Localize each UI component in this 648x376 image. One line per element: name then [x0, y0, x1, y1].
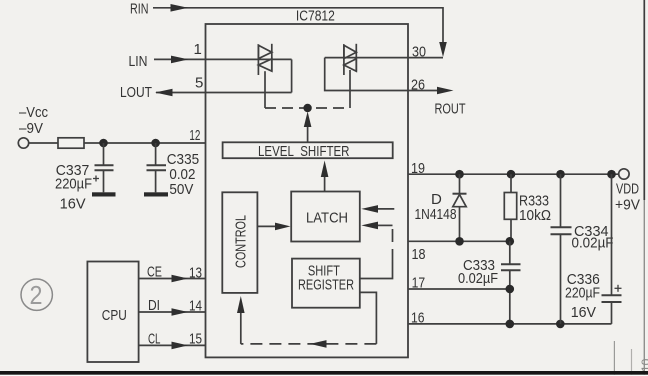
- pin 14 label: [189, 298, 202, 315]
- arrowhead into latch right 2: [361, 222, 378, 230]
- pin 30 label: [412, 44, 426, 61]
- svg-text:26: 26: [411, 77, 425, 94]
- junction pin17 C333: [506, 285, 515, 294]
- wire shift register to latch (dashed riser): [360, 262, 393, 279]
- svg-text:16V: 16V: [60, 196, 86, 213]
- analog switch S2 (right): [344, 44, 356, 75]
- ground C337: [92, 192, 116, 196]
- svg-text:15: 15: [189, 331, 202, 348]
- wire level shifter to control bus: [307, 126, 309, 142]
- analog switch S1 (left): [258, 44, 271, 75]
- pin 16 label: [411, 310, 425, 327]
- svg-text:DI: DI: [148, 297, 160, 314]
- block LATCH: [291, 192, 360, 242]
- svg-text:1: 1: [194, 41, 202, 58]
- arrowhead down into pin 30: [439, 42, 447, 57]
- svg-text:50V: 50V: [169, 181, 193, 198]
- junction rail R333: [507, 170, 516, 179]
- junction control bus: [303, 104, 311, 112]
- wire LOUT pin 5: [156, 92, 292, 94]
- resistor R333: [504, 174, 516, 241]
- svg-text:ROUT: ROUT: [435, 101, 466, 118]
- svg-text:16V: 16V: [571, 304, 596, 321]
- svg-text:220µF: 220µF: [55, 176, 92, 193]
- svg-text:12: 12: [189, 127, 200, 144]
- svg-text:–9V: –9V: [19, 120, 43, 137]
- arrowhead feedback left: [310, 340, 327, 348]
- svg-text:17: 17: [412, 275, 426, 292]
- wire dashed feedback to control: [241, 343, 377, 345]
- pin 26 label: [411, 77, 425, 94]
- svg-text:LATCH: LATCH: [306, 210, 348, 227]
- block SHIFT REGISTER: [292, 259, 360, 308]
- ground C335: [144, 192, 168, 196]
- wire pin 12 rail: [84, 142, 206, 144]
- wire input arrow 1 into latch right: [377, 208, 394, 210]
- capacitor C335: [147, 143, 167, 192]
- svg-text:VDD: VDD: [616, 181, 639, 198]
- scan artifact vertical lines bottom right: [613, 341, 615, 376]
- wire switch1 wrap: [291, 59, 293, 92]
- svg-text:19: 19: [411, 160, 425, 177]
- label C336 220uF 16V: [565, 271, 600, 321]
- label LATCH: [306, 210, 348, 227]
- junction rail D: [455, 170, 464, 179]
- svg-text:14: 14: [189, 298, 202, 315]
- svg-text:+9V: +9V: [615, 197, 640, 214]
- junction pin18 diode: [455, 237, 464, 246]
- pin 1 label: [194, 41, 202, 58]
- arrowhead ROUT right: [437, 87, 454, 95]
- value label C337 220uF 16V: [55, 162, 92, 213]
- capacitor C336: [602, 174, 622, 324]
- svg-text:CONTROL: CONTROL: [233, 215, 250, 268]
- node ROUT label: [435, 101, 466, 118]
- wire pin 30: [325, 57, 443, 59]
- wire CL pin 15: [139, 344, 206, 346]
- junction pin16 C333: [506, 320, 515, 329]
- figure number 2 circle: [21, 279, 52, 310]
- wire pin 19 VDD rail: [408, 173, 619, 175]
- wire CE pin 13: [139, 278, 206, 280]
- svg-text:13: 13: [189, 265, 202, 282]
- svg-text:220µF: 220µF: [565, 285, 600, 302]
- svg-text:2: 2: [30, 280, 43, 310]
- junction rail C336: [607, 170, 616, 179]
- arrowhead LOUT left: [155, 89, 173, 97]
- IC label IC7812: [296, 7, 335, 24]
- value label C335 0.02 50V: [167, 151, 199, 198]
- wire switch2 wrap: [325, 58, 408, 91]
- svg-text:30: 30: [412, 44, 426, 61]
- svg-text:LIN: LIN: [129, 53, 148, 70]
- pin 18 label: [412, 246, 426, 263]
- junction pin18 R333: [506, 237, 515, 246]
- wire DI pin 14: [139, 311, 206, 313]
- signal DI label: [148, 297, 160, 314]
- arrowhead up into control: [237, 296, 245, 313]
- terminal VDD circle: [619, 169, 629, 179]
- wire switch control dashed bus: [265, 107, 350, 109]
- wire pin 26 to ROUT: [408, 90, 438, 92]
- wire switch S2 control drop: [349, 70, 351, 108]
- svg-text:16: 16: [411, 310, 425, 327]
- label SHIFT REGISTER: [298, 263, 354, 294]
- svg-text:REGISTER: REGISTER: [298, 277, 354, 294]
- wire feedback up to control: [240, 312, 242, 344]
- arrowhead into latch left: [275, 223, 291, 231]
- label CPU: [102, 307, 127, 324]
- pin 13 label: [189, 265, 202, 282]
- arrowhead up into level shifter: [321, 161, 329, 178]
- label C333 0.02uF: [458, 257, 498, 287]
- signal CL label: [148, 331, 161, 348]
- block LEVEL SHIFTER: [223, 142, 393, 158]
- svg-text:1N4148: 1N4148: [415, 206, 457, 223]
- net -Vcc label: [19, 104, 48, 137]
- svg-text:RIN: RIN: [130, 1, 149, 18]
- svg-text:5: 5: [195, 75, 203, 92]
- IC U1 IC7812 outline: [206, 24, 409, 357]
- svg-text:10kΩ: 10kΩ: [519, 207, 551, 224]
- node LOUT label: [120, 84, 152, 101]
- figure number 2: [30, 280, 43, 310]
- arrowhead RIN right: [171, 4, 189, 12]
- wire shift register output down: [360, 292, 377, 344]
- node RIN label: [130, 1, 149, 18]
- wire latch to level shifter: [324, 176, 326, 192]
- svg-text:IC7812: IC7812: [296, 7, 335, 24]
- node LIN label: [129, 53, 148, 70]
- net VDD +9V label: [615, 181, 640, 214]
- block CONTROL: [222, 192, 257, 293]
- label C334 0.02uF: [572, 223, 614, 252]
- junction rail C334: [556, 170, 565, 179]
- terminal -9V circle: [18, 138, 28, 148]
- svg-text:10: 10: [639, 358, 648, 372]
- label CONTROL (vertical): [233, 215, 250, 268]
- scan artifact rotated text: [639, 358, 648, 372]
- arrowhead LIN right: [171, 56, 189, 64]
- svg-text:–Vcc: –Vcc: [19, 104, 48, 121]
- arrowhead DI: [172, 308, 189, 316]
- wire pin 17: [408, 288, 510, 290]
- wire terminal to resistor: [29, 142, 58, 144]
- wire LIN pin 1: [154, 58, 292, 60]
- capacitor C333: [501, 241, 521, 324]
- junction C337: [99, 139, 108, 148]
- arrowhead up to control bus: [304, 112, 312, 128]
- svg-text:CE: CE: [147, 264, 162, 281]
- pin 17 label: [412, 275, 426, 292]
- label R333 10kOhm: [519, 193, 551, 225]
- bottom border bar: [0, 371, 648, 375]
- capacitor C334: [551, 174, 572, 324]
- wire switch S1 control drop: [264, 71, 266, 108]
- svg-text:CPU: CPU: [102, 307, 127, 324]
- wire control to latch: [257, 225, 276, 227]
- junction pin16 C334: [556, 320, 565, 329]
- wire pin 16: [408, 323, 612, 325]
- scan page edge right: [643, 0, 645, 200]
- svg-text:18: 18: [412, 246, 426, 263]
- arrowhead into latch right 1: [361, 205, 378, 213]
- label D 1N4148: [415, 191, 457, 223]
- junction C335: [151, 139, 160, 148]
- pin 19 label: [411, 160, 425, 177]
- svg-text:0.02µF: 0.02µF: [458, 270, 498, 287]
- capacitor C337: [93, 143, 114, 192]
- pin 15 label: [189, 331, 202, 348]
- pin 12 label: [189, 127, 200, 144]
- pin 5 label: [195, 75, 203, 92]
- arrowhead CL: [172, 342, 189, 350]
- arrowhead CE: [172, 275, 189, 283]
- wire pin 18: [408, 240, 511, 242]
- label LEVEL SHIFTER: [258, 143, 350, 160]
- svg-text:CL: CL: [148, 331, 161, 348]
- diode D 1N4148: [453, 174, 467, 241]
- block CPU: [87, 262, 138, 363]
- wire RIN to pin 30: [153, 8, 443, 42]
- svg-text:0.02µF: 0.02µF: [572, 235, 614, 252]
- svg-text:LOUT: LOUT: [120, 84, 152, 101]
- signal CE label: [147, 264, 162, 281]
- resistor R (unlabeled): [58, 138, 84, 148]
- svg-text:LEVEL SHIFTER: LEVEL SHIFTER: [258, 143, 350, 160]
